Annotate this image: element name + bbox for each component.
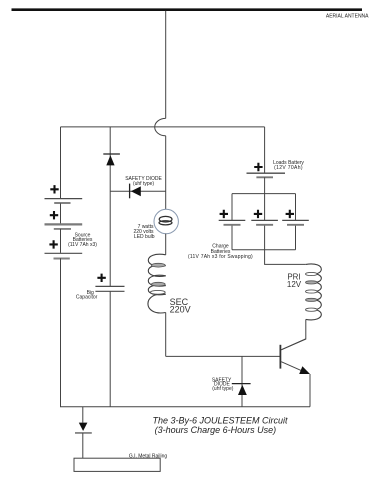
transistor Q1 (280, 339, 310, 374)
wire: PRI coil to collector (281, 319, 306, 349)
plus of cell 2 (50, 211, 58, 219)
charge cell 1 plates (219, 220, 246, 224)
safety diode D1 pointing up (103, 154, 120, 165)
wire: charge box to PRI coil (265, 250, 306, 265)
bottom rail (60, 406, 310, 408)
wire: safety-diode horizontal link (110, 190, 166, 192)
PRI coil L2 (306, 264, 322, 320)
plus of charge cell 2 (254, 210, 262, 218)
svg-text:Capacitor: Capacitor (76, 295, 98, 301)
charge batteries box bottom (232, 249, 296, 251)
svg-text:(3-hours Charge 6-Hours Use): (3-hours Charge 6-Hours Use) (155, 425, 277, 435)
charge box middle wire segments (264, 194, 266, 250)
wire: diode to railing box (82, 433, 84, 458)
plus of charge cell 1 (220, 210, 228, 218)
svg-text:(uhf type): (uhf type) (133, 181, 154, 187)
SEC coil core ellipses (150, 263, 165, 294)
charge cell 3 plates (282, 220, 309, 224)
svg-text:(11V 7Ah x3): (11V 7Ah x3) (68, 242, 97, 248)
wire: lower safety diode branch (241, 356, 243, 406)
source battery cell 2 (45, 224, 83, 229)
wire: SEC to base junction (165, 313, 167, 357)
safety diode D2 pointing left (130, 184, 141, 199)
wire cell2-cell3 (60, 229, 62, 253)
source battery cell 3 (45, 253, 83, 258)
big capacitor C1 plates (95, 286, 124, 291)
wire: LED to SEC coil (165, 234, 167, 255)
loads battery plates (247, 173, 286, 177)
plus of cell 3 (49, 240, 57, 248)
wire: capacitor to bottom rail (109, 291, 111, 406)
wire: transistor base link (166, 355, 280, 357)
svg-text:(11V 7Ah x3 for Swapping): (11V 7Ah x3 for Swapping) (188, 254, 253, 260)
wire cell1-cell2 (60, 203, 62, 224)
charge box right edge segments (295, 194, 297, 250)
plus of charge cell 3 (286, 210, 294, 218)
svg-text:220V: 220V (170, 305, 191, 315)
wire: antenna drop lower to LED (165, 136, 167, 210)
wire: antenna drop upper (165, 11, 167, 119)
svg-text:12V: 12V (287, 280, 302, 289)
wire hop over horizontal bus (155, 118, 166, 135)
wire: ground branch (82, 407, 84, 423)
svg-text:(12V 70Ah): (12V 70Ah) (274, 165, 303, 171)
PRI coil core ellipses (306, 272, 318, 311)
aerial antenna line (12, 8, 363, 11)
wire: diode-capacitor branch (109, 127, 111, 286)
wire: top horizontal bus (61, 126, 265, 128)
LED bulb (154, 209, 178, 233)
wire: source battery to bottom rail (60, 258, 62, 407)
ground diode D3 pointing down (75, 423, 92, 433)
plus of big capacitor (97, 274, 105, 282)
wire: loads battery to charge box (264, 177, 266, 193)
svg-text:AERIAL ANTENNA: AERIAL ANTENNA (326, 13, 369, 19)
wire: emitter to bottom rail (309, 374, 311, 407)
charge cell 2 plates (251, 220, 278, 224)
wire: source battery branch top (60, 127, 62, 199)
plus of cell 1 (50, 185, 58, 193)
source battery cell 1 (45, 199, 83, 203)
svg-text:The 3-By-6 JOULESTEEM Circuit: The 3-By-6 JOULESTEEM Circuit (152, 415, 288, 425)
charge box left edge segments (231, 194, 233, 250)
svg-text:(uhf type): (uhf type) (212, 386, 233, 392)
charge batteries box top (232, 193, 296, 195)
G.I. metal railing box (74, 458, 160, 471)
svg-text:G.I. Metal Railing: G.I. Metal Railing (129, 453, 168, 459)
plus of loads battery (254, 163, 262, 171)
svg-text:LED bulb: LED bulb (134, 234, 155, 240)
SEC coil L1 (148, 254, 166, 313)
wire: loads battery branch (264, 127, 266, 173)
safety diode D4 pointing up (232, 384, 251, 395)
